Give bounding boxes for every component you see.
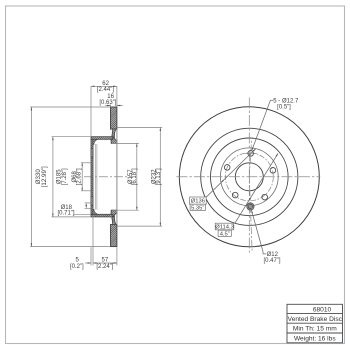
svg-text:Vented Brake Disc: Vented Brake Disc bbox=[288, 316, 343, 323]
svg-text:62: 62 bbox=[102, 81, 109, 87]
hat inner edge lines (section) bbox=[95, 144, 97, 210]
svg-text:57: 57 bbox=[102, 257, 109, 263]
dimension 62 [2.44"] overall width bbox=[91, 81, 117, 137]
svg-text:16: 16 bbox=[107, 94, 114, 100]
friction band inner circle Ø232 (front view) bbox=[201, 128, 298, 225]
svg-text:[9.13”]: [9.13”] bbox=[156, 168, 162, 185]
svg-text:[0.2”]: [0.2”] bbox=[70, 264, 84, 270]
hat neck upper (section) bbox=[111, 129, 117, 144]
centerline vertical (front view) bbox=[248, 98, 250, 253]
top bolt hole cross tick bbox=[245, 152, 256, 154]
dimension Ø232 [9.13"] hat diameter bbox=[117, 128, 162, 227]
hat drum wall upper (section) bbox=[91, 137, 113, 140]
friction ring lower (section) bbox=[111, 225, 117, 247]
centre bore Ø68 (front view) bbox=[235, 163, 263, 191]
section centerline bbox=[84, 176, 132, 178]
dimension Ø18 [0.71"] plate hole bbox=[57, 203, 91, 217]
svg-text:[0.71”]: [0.71”] bbox=[57, 211, 74, 217]
svg-text:Min Th: 15 mm: Min Th: 15 mm bbox=[293, 326, 337, 333]
bolt hole upper (section) bbox=[91, 148, 93, 157]
centerline through Ø12 hole bbox=[249, 177, 252, 252]
svg-text:5 - Ø12.7: 5 - Ø12.7 bbox=[273, 98, 299, 104]
dimension Ø157 [6.18"] bbox=[112, 143, 139, 210]
dimension 5 [0.2"] plate thickness bbox=[70, 216, 93, 270]
dimension Ø330 [12.99"] outer diameter bbox=[30, 107, 110, 247]
svg-text:Weight: 16 lbs: Weight: 16 lbs bbox=[294, 336, 336, 343]
bolt hole lower (section) bbox=[91, 197, 93, 206]
Ø12 locating hole (hatched, front view) bbox=[247, 203, 254, 210]
svg-text:4.5”: 4.5” bbox=[220, 231, 230, 237]
svg-text:[0.5”]: [0.5”] bbox=[277, 105, 291, 111]
bolt hole left-lower Ø12.7 (front view) bbox=[232, 192, 238, 198]
svg-text:[7.28”]: [7.28”] bbox=[62, 168, 68, 185]
svg-text:[2.44”]: [2.44”] bbox=[97, 87, 114, 93]
title Vented Brake Disc bbox=[288, 316, 343, 323]
svg-text:68010: 68010 bbox=[313, 306, 332, 313]
label Ø114.3 / 4.5" boxed with diametral leader bbox=[215, 153, 278, 237]
hat drum wall lower (section) bbox=[91, 214, 113, 217]
svg-text:[2.68”]: [2.68”] bbox=[76, 168, 82, 185]
svg-text:[0.47”]: [0.47”] bbox=[263, 258, 280, 264]
svg-text:Ø114.3: Ø114.3 bbox=[215, 225, 234, 231]
svg-text:[6.18”]: [6.18”] bbox=[132, 168, 138, 185]
outer circle Ø330 (front view) bbox=[179, 107, 319, 247]
dimension Ø185 [7.28"] bbox=[52, 137, 91, 217]
hat mounting plate (section) bbox=[91, 139, 98, 214]
dimension 57 [2.24"] bbox=[93, 247, 117, 270]
drum circle Ø185 (front view) bbox=[211, 138, 289, 216]
dimension 16 [0.63"] disc thickness bbox=[99, 94, 122, 107]
centerline horizontal (front view) bbox=[176, 176, 320, 178]
hat neck lower (section) bbox=[111, 210, 117, 225]
part number 68010 bbox=[313, 306, 332, 313]
label Ø12 [0.47"] with leader bbox=[251, 210, 280, 264]
svg-text:Ø136: Ø136 bbox=[191, 199, 205, 205]
title block table bbox=[287, 304, 343, 343]
hat outer face line (section) bbox=[116, 129, 118, 224]
weight row bbox=[294, 336, 336, 343]
friction ring upper (section) bbox=[111, 107, 117, 129]
bolt hole top Ø12.7 (front view) bbox=[248, 151, 254, 157]
dimension Ø68 [2.68"] centre bore bbox=[72, 163, 91, 191]
bolt circle Ø114.3 (front view) bbox=[225, 153, 273, 201]
svg-text:5.35”: 5.35” bbox=[191, 206, 204, 212]
centerline through top bolt hole bbox=[249, 141, 251, 177]
svg-text:[12.99”]: [12.99”] bbox=[41, 166, 48, 187]
hub face circle Ø136 (front view) bbox=[220, 148, 278, 206]
min thickness row bbox=[293, 326, 337, 333]
bolt hole right-lower Ø12.7 (front view) bbox=[262, 194, 268, 200]
label Ø136 / 5.35" boxed with diametral leader bbox=[190, 149, 256, 212]
bolt hole left-upper Ø12.7 (front view) bbox=[224, 165, 230, 171]
svg-text:[2.24”]: [2.24”] bbox=[96, 264, 113, 270]
bolt hole right-upper Ø12.7 (front view) bbox=[270, 168, 276, 174]
label 5 - Ø12.7 [0.5"] with leader bbox=[252, 98, 299, 150]
